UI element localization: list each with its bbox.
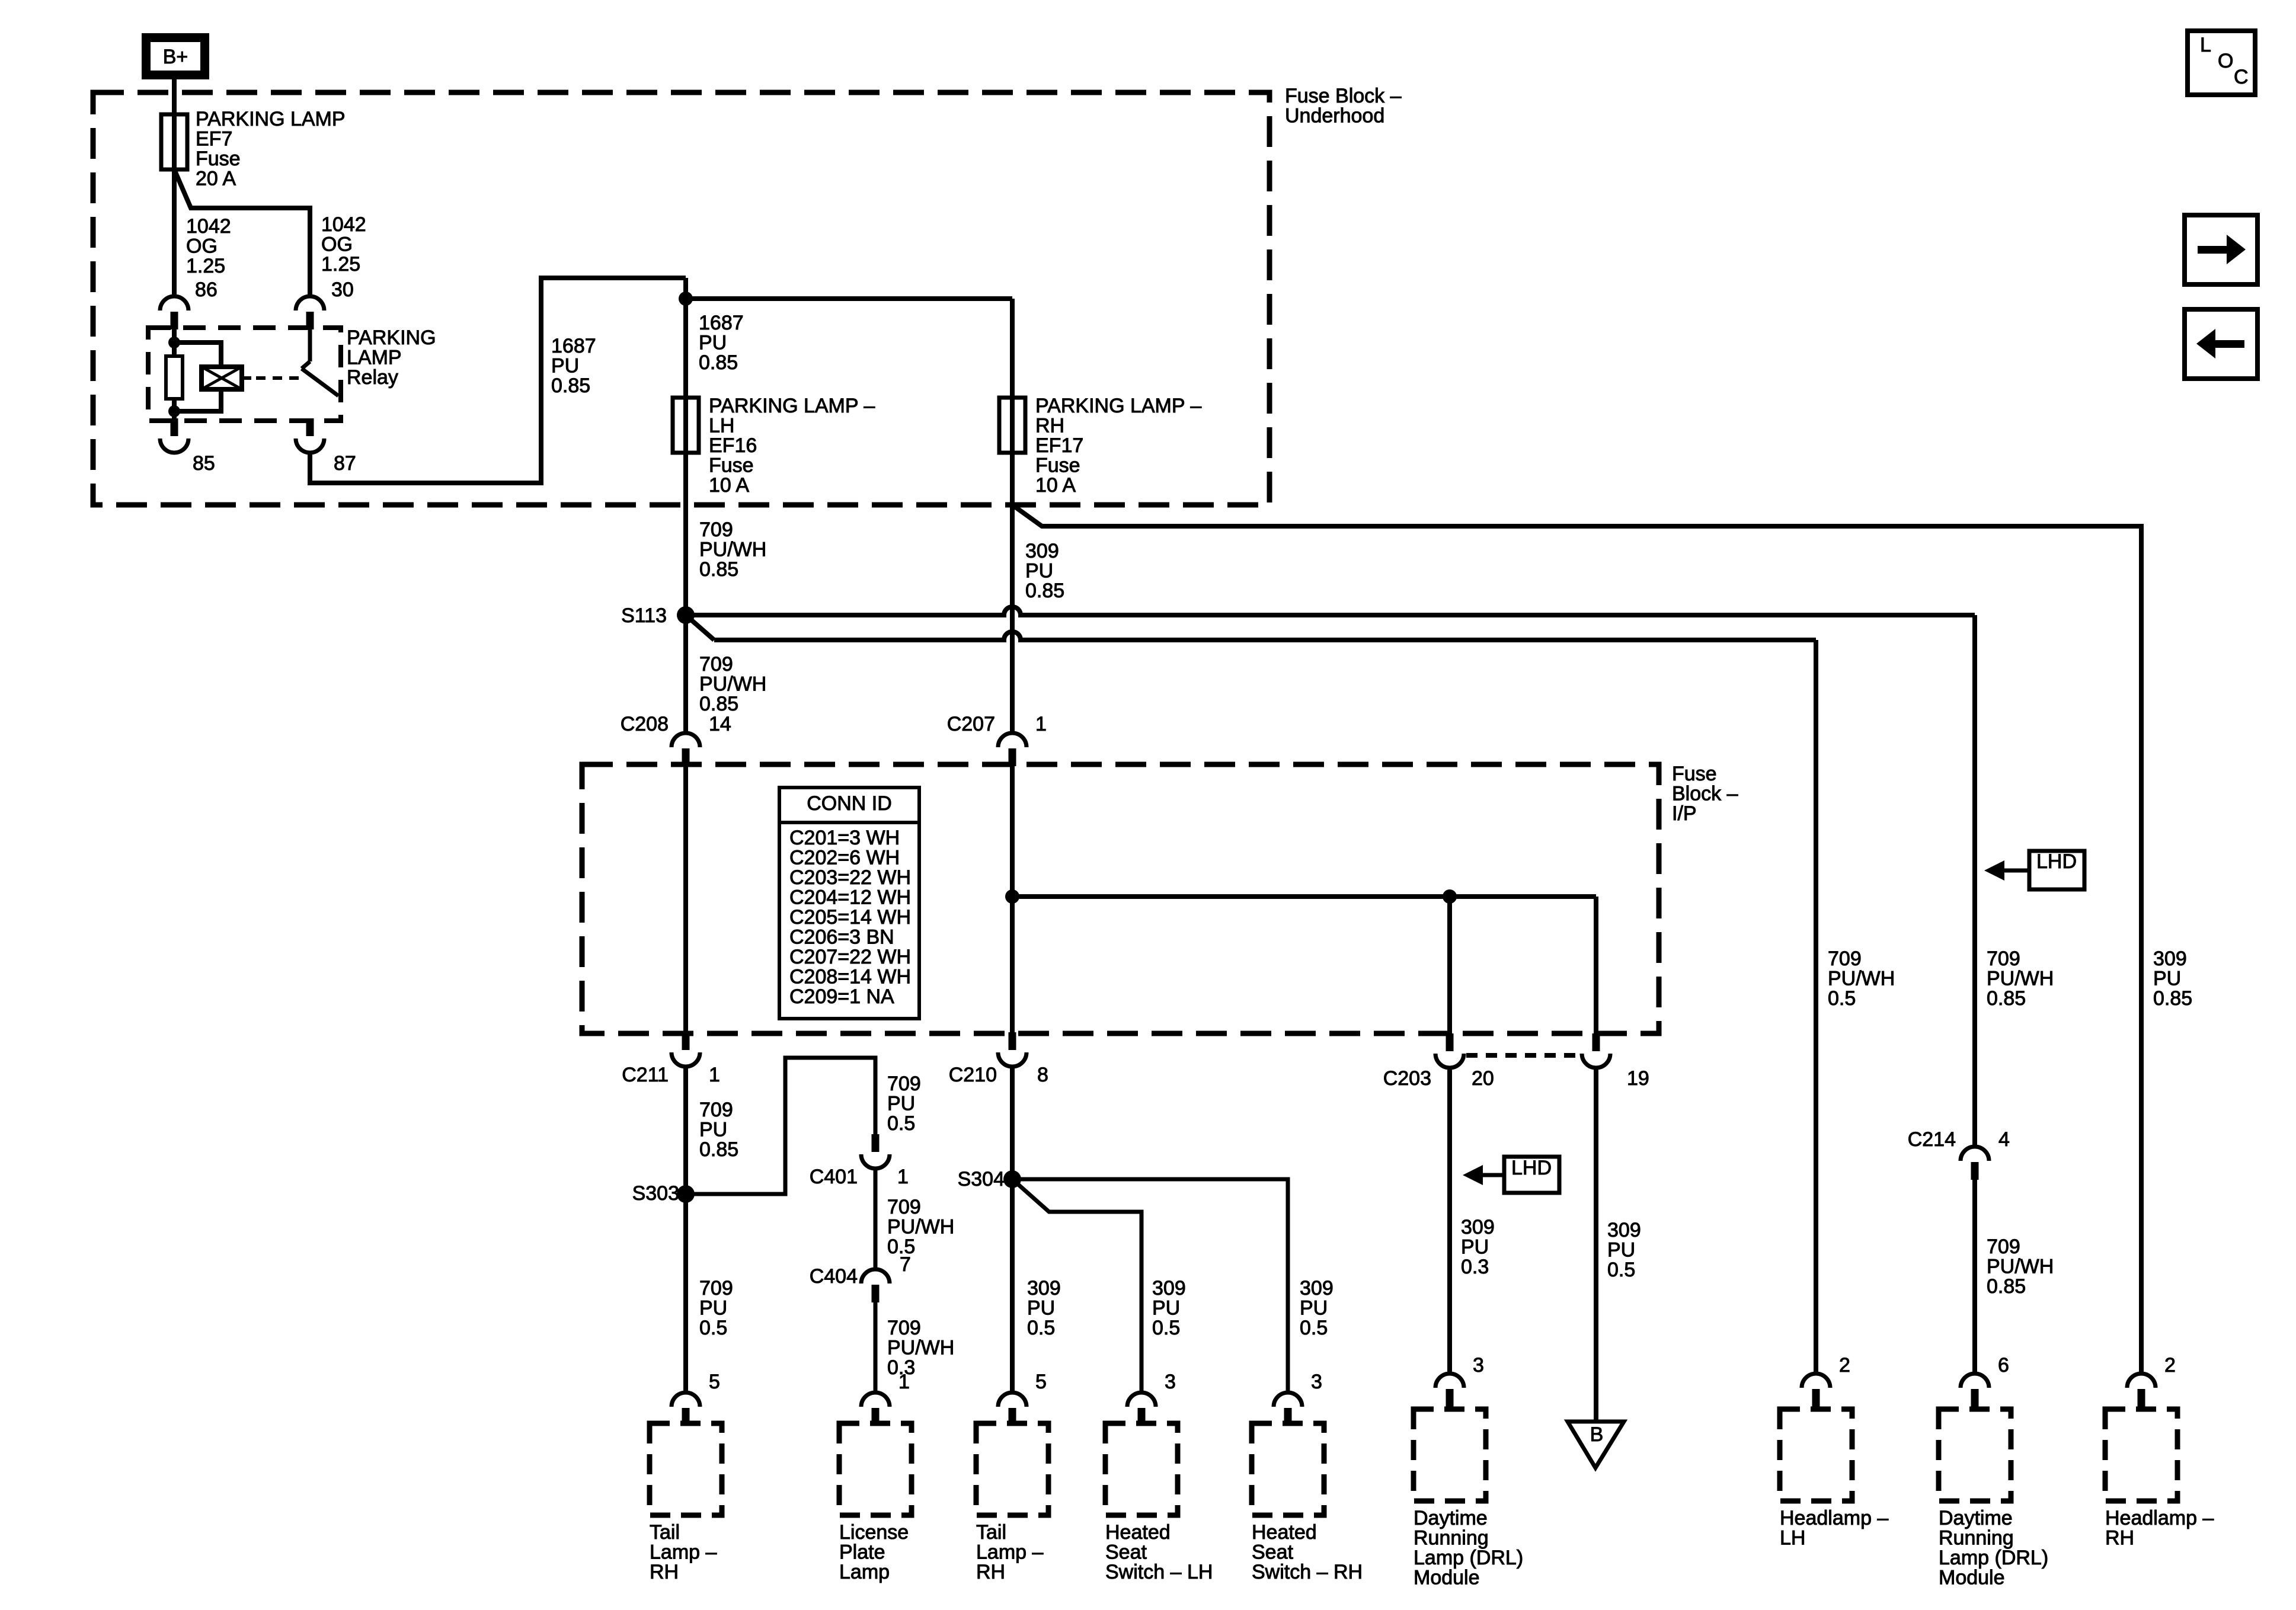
svg-text:309: 309 [1607, 1219, 1641, 1241]
svg-text:0.85: 0.85 [699, 558, 738, 581]
svg-text:1: 1 [1035, 713, 1047, 735]
svg-text:3: 3 [1311, 1371, 1322, 1393]
LHD flag (DRL) [1504, 1157, 1559, 1193]
svg-text:Heated: Heated [1105, 1521, 1171, 1544]
component Daytime Running Lamp (DRL) Module [1939, 1409, 2011, 1501]
svg-text:PU: PU [2153, 968, 2181, 990]
svg-text:30: 30 [331, 279, 354, 301]
connector C203 pin 20 [1446, 1033, 1454, 1051]
svg-text:C208=14 WH: C208=14 WH [789, 966, 911, 988]
svg-text:709: 709 [887, 1073, 921, 1095]
connector C211 pin 1 [682, 1032, 690, 1050]
svg-text:PU/WH: PU/WH [1828, 968, 1895, 990]
svg-text:709: 709 [699, 518, 733, 541]
svg-text:PU/WH: PU/WH [1987, 1256, 2054, 1278]
fuse EF17 10A [999, 398, 1025, 453]
svg-text:0.85: 0.85 [699, 351, 738, 374]
svg-text:309: 309 [1025, 540, 1059, 562]
connector C203 bridge dotted [1466, 1053, 1579, 1058]
svg-text:Plate: Plate [839, 1541, 885, 1564]
component Heated Seat Switch - RH [1252, 1423, 1324, 1515]
svg-text:309: 309 [1461, 1216, 1495, 1238]
svg-text:LAMP: LAMP [347, 347, 402, 369]
svg-text:0.5: 0.5 [699, 1317, 727, 1339]
connector pin 2 at Headlamp - LH [1802, 1374, 1830, 1388]
svg-text:20: 20 [1472, 1067, 1494, 1090]
wire EF7 branch to relay pin 30 [174, 169, 310, 296]
LHD flag (C214 col) [2029, 851, 2084, 889]
svg-text:Seat: Seat [1252, 1541, 1293, 1564]
svg-text:PU: PU [699, 1119, 727, 1141]
svg-text:S304: S304 [958, 1168, 1005, 1190]
svg-text:O: O [2218, 50, 2233, 72]
svg-text:S113: S113 [621, 604, 667, 627]
component Heated Seat Switch - LH [1105, 1423, 1178, 1515]
component Tail Lamp - RH [976, 1423, 1048, 1515]
connector C214 pin 4 [1961, 1147, 1989, 1161]
svg-text:Lamp: Lamp [839, 1561, 890, 1583]
svg-text:309: 309 [2153, 948, 2187, 970]
svg-text:PU: PU [1027, 1297, 1055, 1320]
connector pin 5 at Tail Lamp - RH (left) [671, 1393, 700, 1407]
fuse EF7 20A [161, 114, 187, 169]
svg-text:Module: Module [1939, 1567, 2005, 1589]
svg-text:PU/WH: PU/WH [699, 673, 766, 696]
svg-text:309: 309 [1027, 1277, 1061, 1299]
svg-text:B: B [1590, 1423, 1604, 1446]
splice S304 [1003, 1170, 1021, 1188]
LOC legend box [2188, 31, 2255, 95]
connector pin 86 [160, 296, 188, 311]
svg-text:0.5: 0.5 [1828, 987, 1856, 1010]
svg-text:C209=1 NA: C209=1 NA [789, 985, 894, 1008]
svg-text:709: 709 [1828, 948, 1862, 970]
svg-text:0.5: 0.5 [1607, 1259, 1635, 1281]
svg-text:LH: LH [709, 415, 734, 437]
svg-text:3: 3 [1165, 1371, 1176, 1393]
relay coil branch wires [172, 329, 177, 356]
svg-text:Fuse: Fuse [1672, 763, 1717, 785]
svg-text:709: 709 [699, 653, 733, 676]
svg-text:709: 709 [699, 1099, 733, 1121]
svg-text:10 A: 10 A [1035, 474, 1076, 497]
svg-text:709: 709 [1987, 1235, 2020, 1258]
svg-text:PARKING LAMP –: PARKING LAMP – [709, 395, 875, 417]
svg-text:709: 709 [887, 1196, 921, 1218]
wire S113 to headlamp LH (709 PU/WH 0.5) [686, 615, 714, 640]
svg-text:87: 87 [334, 452, 356, 475]
svg-text:0.85: 0.85 [1987, 987, 2026, 1010]
svg-text:Underhood: Underhood [1285, 105, 1384, 127]
svg-text:Lamp (DRL): Lamp (DRL) [1414, 1547, 1523, 1569]
svg-text:PU/WH: PU/WH [699, 539, 766, 561]
svg-text:Daytime: Daytime [1939, 1507, 2013, 1529]
wire 309 PU 0.85 to headlamp RH [1012, 505, 2141, 1374]
svg-text:PU: PU [1025, 560, 1053, 582]
svg-text:PU: PU [1607, 1239, 1635, 1262]
svg-text:RH: RH [976, 1561, 1005, 1583]
wire C203-19 to ground B (309 PU 0.5) [1594, 1068, 1598, 1422]
svg-text:CONN ID: CONN ID [807, 792, 892, 815]
wire C401 to C404 (709 PU/WH 0.5) [874, 1167, 878, 1269]
connector C203 pin 19 [1593, 1033, 1600, 1051]
svg-text:EF17: EF17 [1035, 434, 1083, 457]
svg-text:OG: OG [186, 235, 218, 258]
relay suppression resistor [166, 356, 183, 399]
connector pin 85 [171, 418, 178, 436]
fuse block I/P dashed box [582, 764, 1659, 1033]
connector pin 87 [306, 418, 314, 436]
svg-text:C202=6 WH: C202=6 WH [789, 847, 900, 869]
svg-text:PU: PU [1152, 1297, 1180, 1320]
svg-text:7: 7 [900, 1253, 911, 1276]
svg-text:0.85: 0.85 [1025, 580, 1064, 602]
svg-text:PARKING LAMP: PARKING LAMP [196, 108, 346, 130]
svg-text:1.25: 1.25 [186, 255, 225, 277]
svg-text:B+: B+ [163, 46, 188, 68]
svg-text:1: 1 [897, 1166, 909, 1188]
connector pin 5 at Tail Lamp - RH [998, 1393, 1027, 1407]
svg-text:309: 309 [1300, 1277, 1334, 1299]
svg-text:1.25: 1.25 [321, 253, 360, 276]
connector pin 1 at License Plate Lamp [861, 1393, 890, 1407]
svg-text:C404: C404 [810, 1265, 858, 1288]
svg-text:86: 86 [195, 279, 218, 301]
svg-text:Relay: Relay [347, 366, 398, 389]
connector C207 pin 1 [998, 733, 1027, 747]
wire to pin 20 [1447, 897, 1452, 1033]
wire C211 to S303 (709 PU 0.85) [683, 1067, 688, 1393]
svg-text:Daytime: Daytime [1414, 1507, 1488, 1529]
svg-text:Module: Module [1414, 1567, 1480, 1589]
svg-text:Lamp –: Lamp – [976, 1541, 1043, 1564]
svg-text:Running: Running [1414, 1527, 1489, 1550]
svg-text:C204=12 WH: C204=12 WH [789, 886, 911, 909]
svg-text:Headlamp –: Headlamp – [2105, 1507, 2214, 1529]
svg-text:RH: RH [2105, 1527, 2134, 1550]
svg-text:OG: OG [321, 233, 353, 256]
svg-text:RH: RH [1035, 415, 1064, 437]
svg-text:L: L [2200, 34, 2211, 56]
wire EF16 column [683, 278, 688, 733]
svg-text:Lamp (DRL): Lamp (DRL) [1939, 1547, 2048, 1569]
svg-text:PU: PU [699, 332, 727, 354]
svg-text:6: 6 [1998, 1354, 2009, 1377]
relay switch blade [308, 329, 312, 361]
svg-text:PU: PU [1300, 1297, 1328, 1320]
svg-text:0.5: 0.5 [1152, 1317, 1180, 1339]
connector pin 6 at Daytime Running Lamp (DRL) Module [1961, 1374, 1989, 1388]
component Tail Lamp - RH (left) [650, 1423, 722, 1515]
svg-text:Tail: Tail [976, 1521, 1006, 1544]
svg-text:S303: S303 [632, 1182, 679, 1205]
svg-text:PARKING LAMP –: PARKING LAMP – [1035, 395, 1201, 417]
svg-text:Tail: Tail [650, 1521, 680, 1544]
svg-text:0.85: 0.85 [699, 693, 738, 715]
wire B+ to fuse EF7 [172, 79, 177, 172]
component Daytime Running Lamp (DRL) Module (left) [1414, 1409, 1486, 1501]
wire C210 to S304 (309 PU 0.5) [1010, 1067, 1015, 1393]
svg-text:Fuse: Fuse [1035, 454, 1080, 477]
svg-text:C205=14 WH: C205=14 WH [789, 906, 911, 929]
svg-text:5: 5 [709, 1371, 720, 1393]
svg-text:C214: C214 [1908, 1128, 1956, 1151]
svg-text:0.3: 0.3 [1461, 1256, 1489, 1278]
svg-text:0.5: 0.5 [1300, 1317, 1328, 1339]
svg-text:C207=22 WH: C207=22 WH [789, 946, 911, 968]
svg-text:1042: 1042 [186, 215, 231, 238]
svg-text:1687: 1687 [551, 335, 596, 357]
connector pin 30 [296, 296, 324, 311]
svg-text:85: 85 [193, 452, 215, 475]
svg-text:PU/WH: PU/WH [887, 1337, 954, 1359]
svg-text:709: 709 [887, 1317, 921, 1339]
svg-text:5: 5 [1035, 1371, 1047, 1393]
svg-text:0.5: 0.5 [887, 1112, 915, 1135]
wire to pin 19 [1594, 897, 1598, 1033]
wire relay 87 to EF16/EF17 feed [310, 278, 686, 483]
splice S113 [677, 606, 695, 624]
svg-text:1: 1 [898, 1371, 910, 1393]
connector C404 pin 7 [861, 1269, 890, 1283]
wire S304 to heated seat switch RH [1012, 1179, 1288, 1393]
svg-text:Running: Running [1939, 1527, 2014, 1550]
svg-text:PARKING: PARKING [347, 327, 436, 349]
svg-text:Fuse Block –: Fuse Block – [1285, 85, 1402, 107]
svg-text:Heated: Heated [1252, 1521, 1317, 1544]
svg-text:2: 2 [2164, 1354, 2176, 1377]
svg-text:0.85: 0.85 [551, 375, 590, 397]
node C207 branch to C203 [1005, 889, 1019, 904]
CONN ID table [779, 788, 919, 1019]
svg-text:C210: C210 [949, 1064, 997, 1086]
svg-text:PU: PU [887, 1093, 915, 1115]
svg-text:0.85: 0.85 [2153, 987, 2192, 1010]
splice S303 [677, 1185, 695, 1203]
wire C214 to DRL module (709 PU/WH 0.85) [1972, 1179, 1977, 1374]
connector C401 pin 1 [872, 1134, 880, 1152]
connector C210 pin 8 [1009, 1032, 1016, 1050]
arrow right legend [2185, 215, 2257, 284]
wire C404 to license plate lamp (709 PU/WH 0.3) [874, 1301, 878, 1393]
svg-text:PU/WH: PU/WH [887, 1216, 954, 1238]
svg-text:C207: C207 [947, 713, 995, 735]
wire C207 to C210 [1010, 766, 1015, 1032]
svg-text:8: 8 [1037, 1064, 1048, 1086]
relay coil winding [202, 367, 242, 389]
svg-text:C211: C211 [622, 1064, 669, 1086]
svg-text:309: 309 [1152, 1277, 1186, 1299]
arrow left legend [2185, 309, 2257, 379]
svg-text:License: License [839, 1521, 909, 1544]
wire S303 to C401 (709 PU 0.5) [686, 1058, 875, 1194]
svg-text:C401: C401 [810, 1166, 858, 1188]
svg-text:EF16: EF16 [709, 434, 757, 457]
node EF16/EF17 tap [679, 292, 693, 306]
svg-text:1: 1 [709, 1064, 720, 1086]
wire S304 to heated seat switch LH [1012, 1179, 1141, 1393]
component License Plate Lamp [839, 1423, 912, 1515]
svg-text:Lamp –: Lamp – [650, 1541, 717, 1564]
svg-text:10 A: 10 A [709, 474, 749, 497]
connector C208 pin 14 [671, 733, 700, 747]
svg-text:4: 4 [1998, 1128, 2010, 1151]
svg-text:PU: PU [699, 1297, 727, 1320]
svg-text:LHD: LHD [1511, 1157, 1552, 1179]
connector pin 3 at Daytime Running Lamp (DRL) Module (left) [1435, 1374, 1464, 1388]
connector pin 2 at Headlamp - RH [2127, 1374, 2156, 1388]
svg-text:C203: C203 [1383, 1067, 1431, 1090]
svg-text:Switch – LH: Switch – LH [1105, 1561, 1213, 1583]
fuse block underhood dashed box [93, 92, 1269, 505]
svg-text:14: 14 [709, 713, 731, 735]
wire to EF17 column [686, 296, 1012, 301]
relay coil to switch mechanical link [242, 376, 251, 380]
svg-text:C: C [2234, 66, 2249, 88]
svg-text:RH: RH [650, 1561, 679, 1583]
svg-text:LHD: LHD [2036, 850, 2077, 873]
svg-text:C206=3 BN: C206=3 BN [789, 926, 894, 949]
svg-text:PU: PU [551, 355, 579, 377]
svg-text:1687: 1687 [699, 312, 744, 334]
fuse EF16 10A [673, 398, 699, 453]
svg-text:3: 3 [1473, 1354, 1484, 1377]
power symbol B+ [146, 38, 205, 75]
svg-text:Switch – RH: Switch – RH [1252, 1561, 1363, 1583]
svg-text:2: 2 [1839, 1354, 1850, 1377]
relay box: PARKING LAMP Relay [148, 328, 341, 421]
wire S113 to DRL module C214 (709 PU/WH 0.85) [686, 607, 1975, 615]
svg-text:C208: C208 [621, 713, 669, 735]
svg-text:Fuse: Fuse [196, 148, 241, 170]
component Headlamp - RH [2105, 1409, 2177, 1501]
svg-text:LH: LH [1780, 1527, 1805, 1550]
svg-text:709: 709 [699, 1277, 733, 1299]
svg-text:19: 19 [1627, 1067, 1649, 1090]
component Headlamp - LH [1780, 1409, 1852, 1501]
connector pin 3 at Heated Seat Switch - RH [1274, 1393, 1302, 1407]
svg-text:709: 709 [1987, 948, 2020, 970]
wire EF7 to relay pin 86 [172, 169, 177, 296]
svg-text:C203=22 WH: C203=22 WH [789, 866, 911, 889]
wire C208 to C211 [683, 766, 688, 1032]
svg-text:I/P: I/P [1672, 802, 1697, 825]
wire C203-20 to DRL module (309 PU 0.3) [1447, 1068, 1452, 1374]
svg-text:Fuse: Fuse [709, 454, 754, 477]
svg-text:20 A: 20 A [196, 168, 236, 190]
node pin 20 tap [1443, 889, 1457, 904]
ground B triangle [1568, 1422, 1624, 1468]
svg-text:PU: PU [1461, 1236, 1489, 1259]
svg-text:0.85: 0.85 [699, 1138, 738, 1161]
svg-text:Seat: Seat [1105, 1541, 1147, 1564]
svg-text:EF7: EF7 [196, 128, 232, 151]
svg-text:0.85: 0.85 [1987, 1275, 2026, 1298]
svg-text:0.5: 0.5 [1027, 1317, 1055, 1339]
svg-text:C201=3 WH: C201=3 WH [789, 827, 900, 849]
svg-text:Block –: Block – [1672, 783, 1738, 805]
connector pin 3 at Heated Seat Switch - LH [1127, 1393, 1156, 1407]
svg-text:Headlamp –: Headlamp – [1780, 1507, 1888, 1529]
svg-text:PU/WH: PU/WH [1987, 968, 2054, 990]
svg-text:1042: 1042 [321, 213, 366, 236]
